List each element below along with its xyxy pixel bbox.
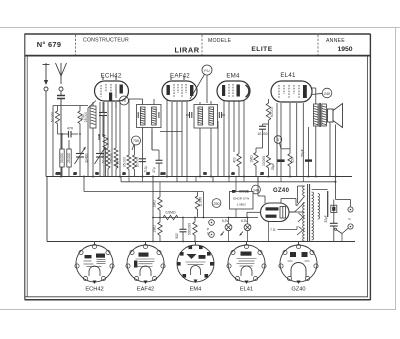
resistor zigzag 11.000 xyxy=(195,192,202,218)
svg-text:47µ: 47µ xyxy=(152,167,156,173)
svg-text:1MΩ: 1MΩ xyxy=(249,155,253,163)
fuse block xyxy=(331,205,337,212)
trimmer cap left xyxy=(137,112,139,118)
svg-text:50.000: 50.000 xyxy=(270,107,274,117)
svg-text:N° 679: N° 679 xyxy=(37,40,61,49)
header divider 1 xyxy=(75,35,77,55)
svg-text:25: 25 xyxy=(146,172,150,176)
junction dots left xyxy=(61,133,104,136)
svg-text:GZ40: GZ40 xyxy=(273,188,290,194)
secondary winding b xyxy=(303,203,305,216)
svg-text:32µF: 32µF xyxy=(324,215,328,222)
lamp 2 xyxy=(240,218,251,242)
socket ECH42 xyxy=(75,242,114,285)
voltage circle 240 near EL41 xyxy=(312,88,332,98)
junction dots volume xyxy=(152,217,248,243)
capacitor 470 xyxy=(58,127,79,138)
capacitor mains xyxy=(324,200,338,242)
oscillator coil L1 xyxy=(84,102,96,177)
svg-text:50: 50 xyxy=(203,172,207,176)
svg-text:50µF: 50µF xyxy=(301,149,305,157)
svg-text:~: ~ xyxy=(348,217,352,223)
label 7 ohms xyxy=(270,226,297,232)
wire x218 xyxy=(217,121,219,177)
tubes row xyxy=(95,72,313,102)
header bottom rule xyxy=(25,55,370,57)
svg-text:70: 70 xyxy=(122,99,126,103)
resistor R 50.000 xyxy=(60,134,64,177)
svg-text:50.000: 50.000 xyxy=(60,153,64,163)
resistor zigzag 1M xyxy=(249,148,258,177)
resistor zigzag 150 xyxy=(288,154,294,167)
capacitor C 10.000 xyxy=(256,124,269,155)
IF transformer 2 xyxy=(186,101,225,177)
resistor zigzag 1M upper xyxy=(153,192,163,218)
resistor zigzag 100 xyxy=(103,135,108,148)
wire x80 down xyxy=(79,124,81,141)
main bus xyxy=(46,172,355,242)
wire osc grid xyxy=(98,135,100,140)
wire x53 xyxy=(52,106,54,177)
resistor zigzag 50.000 anode xyxy=(266,99,274,124)
wire EAF42 pins xyxy=(166,99,168,177)
trimmer cap right xyxy=(219,112,225,118)
speaker xyxy=(328,104,343,200)
tap bar xyxy=(327,191,329,217)
core xyxy=(307,184,309,241)
left oscillator section xyxy=(51,101,121,177)
bus micro labels xyxy=(56,172,264,176)
wire y106 xyxy=(53,105,88,107)
svg-text:EL41: EL41 xyxy=(240,287,253,293)
electrolytic cap 25uF xyxy=(271,159,285,170)
svg-text:750: 750 xyxy=(133,139,139,143)
svg-text:470: 470 xyxy=(67,127,73,131)
svg-text:ELITE: ELITE xyxy=(251,46,272,53)
bus2 xyxy=(121,181,336,183)
svg-text:ECH42: ECH42 xyxy=(85,287,103,293)
wire avc xyxy=(83,177,85,192)
wires GZ40 xyxy=(257,177,259,197)
wire ECH42 pin x120 xyxy=(115,102,120,177)
terminal mains upper xyxy=(336,200,354,213)
wires IF1 xyxy=(142,99,144,105)
resistor zigzag cathode EL41 xyxy=(262,155,271,177)
wire x236 xyxy=(235,177,237,218)
capacitor antenna series xyxy=(57,91,65,177)
volume control section xyxy=(152,177,258,243)
junction dots bus xyxy=(60,176,337,183)
primary winding tap section xyxy=(318,194,320,220)
svg-text:150: 150 xyxy=(290,157,294,163)
svg-text:6,3V: 6,3V xyxy=(222,219,229,223)
resistor zigzag 1M lower xyxy=(153,218,163,242)
trimmer cap left xyxy=(186,112,192,118)
svg-text:25.000: 25.000 xyxy=(67,153,71,163)
svg-text:ECH42: ECH42 xyxy=(101,73,122,80)
secondary winding d xyxy=(303,232,305,242)
winding connector wires xyxy=(298,185,305,187)
voltage circle 5 xyxy=(274,136,290,149)
tube EM4 xyxy=(217,81,250,101)
tube EAF42 xyxy=(162,77,197,102)
wire EL41 pins xyxy=(276,103,278,177)
IF transformer 1 xyxy=(129,99,182,177)
potentiometer 0.5M xyxy=(163,211,178,220)
terminal antenna xyxy=(59,87,63,91)
wire ECH42 anode xyxy=(115,102,117,108)
svg-text:GZ40: GZ40 xyxy=(291,287,305,293)
svg-text:EAF42: EAF42 xyxy=(170,73,190,80)
svg-text:10: 10 xyxy=(231,172,235,176)
coil IF2 primary xyxy=(198,107,203,125)
wire x88 riser xyxy=(88,101,96,109)
wire ground down xyxy=(45,91,47,177)
tube EL41 xyxy=(271,81,312,102)
schematic outer frame xyxy=(25,34,371,301)
dial box 6003E xyxy=(230,190,254,209)
svg-text:CONSTRUCTEUR: CONSTRUCTEUR xyxy=(83,38,129,44)
svg-text:EM4: EM4 xyxy=(226,73,240,80)
svg-text:1950: 1950 xyxy=(337,46,352,53)
svg-text:240: 240 xyxy=(324,92,330,96)
wire y217 xyxy=(153,217,258,219)
wire ECH42 pin x104 xyxy=(103,102,105,177)
middle fabric below IF1/EAF42 xyxy=(123,99,304,182)
sockets row xyxy=(75,242,318,293)
primary top wire xyxy=(312,189,328,191)
resistor zigzag 30.000 xyxy=(133,145,140,177)
svg-text:25µF: 25µF xyxy=(271,163,275,171)
svg-text:25µµF: 25µµF xyxy=(115,158,119,168)
svg-text:50.000: 50.000 xyxy=(51,112,55,122)
svg-text:25.000: 25.000 xyxy=(110,153,114,163)
resistor zigzag 35.000 xyxy=(123,99,132,177)
svg-text:50.000: 50.000 xyxy=(102,153,106,163)
svg-text:400: 400 xyxy=(232,157,236,163)
svg-text:6003E: 6003E xyxy=(239,190,250,194)
svg-text:LIRAR: LIRAR xyxy=(174,46,199,55)
svg-text:11.000: 11.000 xyxy=(199,197,203,207)
voltage circle 250 xyxy=(212,199,221,208)
trimmer cap right xyxy=(158,112,160,118)
wire AVC step xyxy=(160,131,182,133)
socket EAF42 xyxy=(126,242,165,285)
rectifier section xyxy=(230,177,305,242)
svg-text:EHOR OYN: EHOR OYN xyxy=(233,197,249,201)
svg-text:7 Ω: 7 Ω xyxy=(270,228,276,232)
power transformer xyxy=(289,184,353,242)
variable capacitor CV1 xyxy=(75,141,89,177)
svg-text:10.000: 10.000 xyxy=(257,132,267,136)
left riser xyxy=(46,177,48,242)
header band xyxy=(25,35,370,56)
capacitor C 0.1 xyxy=(139,159,148,172)
svg-text:0,5MΩ: 0,5MΩ xyxy=(165,211,176,215)
resistor zigzag antenna 50.000 xyxy=(51,106,60,135)
svg-text:100: 100 xyxy=(161,172,166,176)
wire x105 xyxy=(105,148,107,177)
header divider 2 xyxy=(201,35,203,55)
capacitor 50uF rail xyxy=(301,127,313,177)
voltage circle near ECH42 xyxy=(120,96,129,105)
svg-text:10: 10 xyxy=(122,172,126,176)
svg-text:250: 250 xyxy=(214,202,220,206)
svg-text:ANNEE: ANNEE xyxy=(326,38,345,44)
voltage circle 750 xyxy=(132,136,141,150)
svg-text:10.000: 10.000 xyxy=(262,156,266,166)
bus tie wires xyxy=(129,177,303,192)
voltage circle 140 xyxy=(252,185,261,194)
svg-text:EL41: EL41 xyxy=(280,72,296,79)
svg-text:50: 50 xyxy=(95,172,99,176)
svg-text:P.U: P.U xyxy=(204,69,210,73)
svg-text:35.000: 35.000 xyxy=(123,157,127,167)
svg-text:MODELE: MODELE xyxy=(208,38,231,44)
coil IF1 secondary xyxy=(152,107,157,125)
tube GZ40 xyxy=(261,203,290,222)
wire EM4 pins xyxy=(223,101,225,177)
coil IF1 primary xyxy=(140,107,145,125)
socket EL41 xyxy=(227,242,266,285)
svg-text:502: 502 xyxy=(175,233,179,239)
resistor zigzag 750 xyxy=(78,106,85,124)
svg-text:1.0803: 1.0803 xyxy=(237,203,247,207)
wires transformer xyxy=(312,87,316,89)
antenna symbol xyxy=(56,63,67,84)
tube ECH42 xyxy=(95,77,129,102)
lamp 1 xyxy=(221,218,232,242)
resistor zigzag 400 xyxy=(232,154,241,167)
svg-text:6,3V: 6,3V xyxy=(241,219,248,223)
svg-text:30.000: 30.000 xyxy=(136,157,140,167)
svg-text:25: 25 xyxy=(260,172,264,176)
secondary winding c xyxy=(303,219,305,229)
terminal circle PU top xyxy=(190,65,212,103)
wires IF2 xyxy=(199,102,201,105)
bottom bus xyxy=(47,241,355,243)
output transformer xyxy=(312,88,326,177)
socket EM4 xyxy=(177,242,214,284)
capacitor C 47 xyxy=(152,130,163,177)
variable capacitor CV2 xyxy=(95,102,106,177)
terminal mains lower xyxy=(348,224,353,229)
capacitor C osc xyxy=(99,102,107,135)
svg-text:EM4: EM4 xyxy=(190,287,202,293)
resistor loop 25.000 xyxy=(110,102,119,177)
svg-text:1MΩ: 1MΩ xyxy=(153,225,157,233)
resistor R 25.000 xyxy=(67,140,71,177)
capacitor C tone xyxy=(175,218,187,242)
socket GZ40 xyxy=(279,242,318,285)
secondary winding a xyxy=(303,186,305,196)
primary winding xyxy=(312,192,314,240)
wire x203 xyxy=(203,192,205,218)
ground symbol xyxy=(43,63,50,85)
resistor zigzag 500.000 xyxy=(188,218,198,242)
header divider 3 xyxy=(317,35,319,55)
wire ECH42 pin x112 xyxy=(111,102,113,177)
svg-text:15: 15 xyxy=(73,172,77,176)
svg-text:25.000: 25.000 xyxy=(84,112,88,122)
terminal PU upper xyxy=(209,220,215,226)
terminal PU lower xyxy=(207,228,214,238)
coil IF2 secondary xyxy=(209,107,214,125)
switch mains xyxy=(335,228,349,241)
svg-text:470: 470 xyxy=(56,172,61,176)
terminal ground xyxy=(44,87,48,91)
svg-text:EAF42: EAF42 xyxy=(137,287,154,293)
svg-text:500.000: 500.000 xyxy=(188,223,192,235)
resistor loop 50.000 xyxy=(102,102,111,177)
